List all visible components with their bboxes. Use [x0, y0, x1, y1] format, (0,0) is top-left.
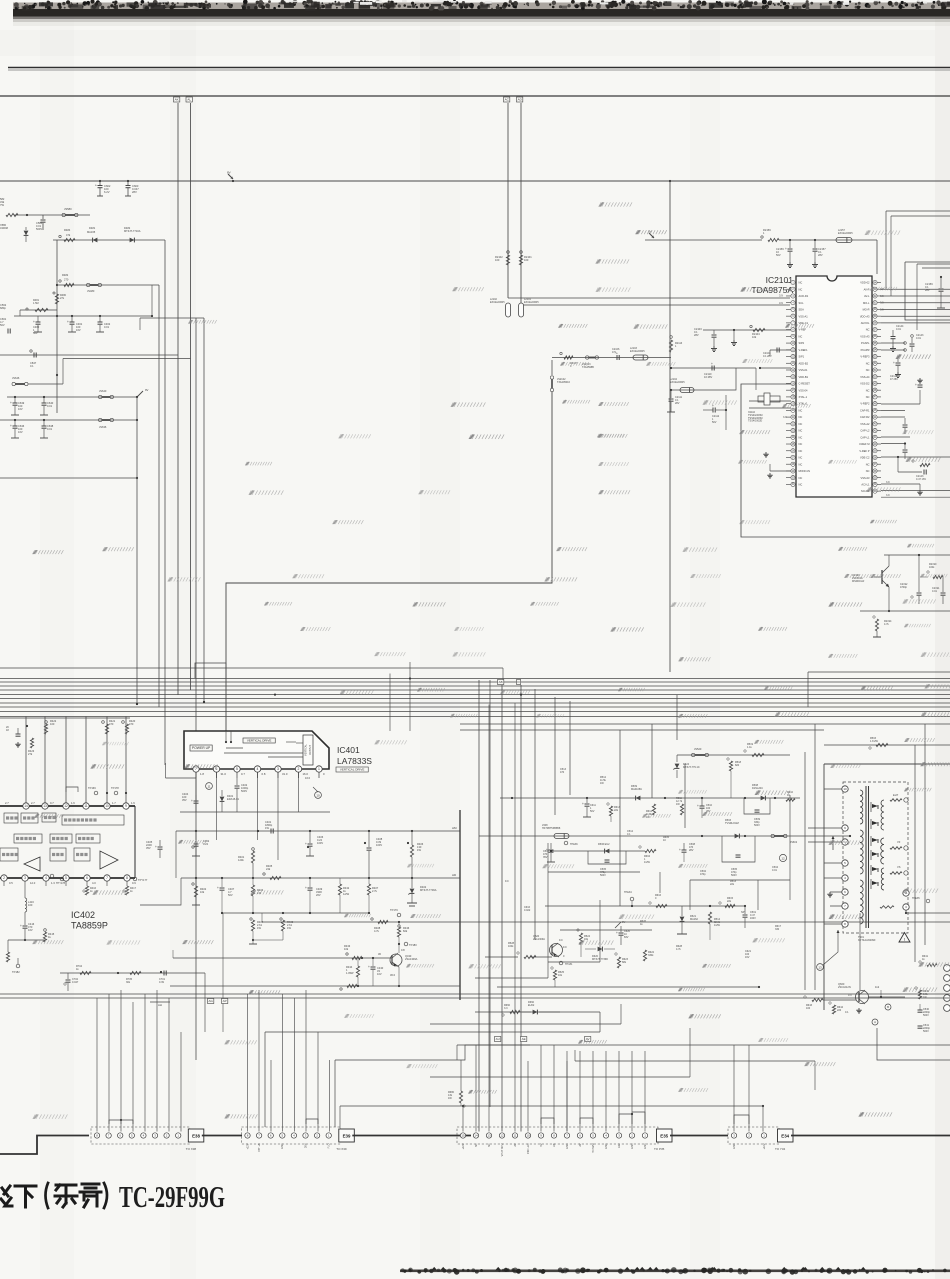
wire V-REF2 right: [881, 403, 920, 405]
resistor R2159: [768, 238, 779, 241]
svg-text:MTZJT-7710A: MTZJT-7710A: [124, 229, 141, 233]
wire row 1061: [575, 1060, 815, 1062]
connector E35 pin 9: [538, 1133, 543, 1138]
wire i2c bracket: [66, 787, 78, 792]
wire: second rail: [0, 95, 950, 97]
wire vertical x152: [151, 285, 153, 316]
svg-text:VSS-01: VSS-01: [799, 368, 808, 372]
wire row 1045: [457, 1044, 950, 1046]
T501 primary winding 3: [860, 880, 863, 924]
svg-text:NC: NC: [866, 462, 870, 466]
connector E35 pin 1: [642, 1133, 647, 1138]
wire thick E38-E39: [202, 1135, 242, 1137]
wire D vertical: [520, 685, 522, 1132]
jumper JS580: [62, 213, 65, 216]
connector E38 label: [188, 1129, 204, 1142]
resistor R2190: [927, 571, 929, 573]
wire right box A: [905, 261, 950, 263]
capacitor C2191: [942, 589, 944, 592]
svg-text:AM: AM: [452, 826, 457, 830]
wire mesh v x925: [924, 724, 926, 945]
wire vertical x137 lower: [136, 478, 138, 704]
diode D509: [636, 796, 641, 801]
svg-text:0.1: 0.1: [845, 1011, 849, 1014]
svg-text:T3A205016: T3A205016: [557, 381, 571, 384]
svg-text:8V: 8V: [227, 171, 231, 175]
wire mesh h 880: [690, 879, 790, 881]
svg-text:4300M: 4300M: [0, 226, 8, 230]
svg-text:31.0: 31.0: [221, 772, 227, 776]
node AD: [517, 97, 523, 102]
wire row 316: [14, 315, 152, 317]
ground T501 pin6: [829, 892, 831, 894]
svg-text:AH: AH: [158, 1003, 162, 1007]
zener D524: [675, 764, 680, 769]
connector E39 pin 3: [303, 1133, 308, 1138]
svg-text:+12V: +12V: [462, 1143, 465, 1149]
svg-text:TP181: TP181: [565, 963, 573, 966]
svg-text:+: +: [616, 931, 618, 935]
svg-text:10 28V: 10 28V: [704, 375, 712, 379]
connector E34 label: [778, 1129, 794, 1142]
wire base row 958: [173, 957, 392, 959]
capacitor C2145: [904, 418, 906, 424]
resistor R2194: [873, 616, 875, 618]
test point TP179: [397, 913, 401, 917]
svg-text:26V: 26V: [304, 1143, 307, 1148]
svg-text:12: 12: [500, 1134, 504, 1138]
wire bus line 4: [0, 689, 950, 691]
resistor R2105: [912, 460, 914, 462]
wire mesh v x548: [547, 843, 549, 978]
svg-text:NC: NC: [799, 449, 803, 453]
svg-text:0.1: 0.1: [627, 833, 631, 836]
svg-text:+: +: [697, 804, 699, 808]
svg-text:7: 7: [195, 767, 197, 771]
resistor R2102: [506, 255, 509, 265]
svg-text:+: +: [305, 842, 307, 846]
svg-text:16.0: 16.0: [303, 772, 309, 776]
capacitor C407: [221, 878, 223, 887]
svg-text:1W: 1W: [417, 848, 421, 852]
svg-text:EXCELDR05: EXCELDR05: [490, 301, 505, 304]
svg-text:11: 11: [513, 1134, 516, 1138]
svg-text:1W: 1W: [600, 782, 604, 785]
svg-text:330k: 330k: [648, 954, 654, 957]
resistor R404: [250, 918, 252, 920]
wire 240 cont: [779, 239, 868, 241]
svg-text:NC: NC: [799, 281, 803, 285]
svg-text:500V: 500V: [36, 227, 42, 231]
inductor L2102: [506, 303, 511, 317]
svg-text:+: +: [711, 362, 713, 366]
resistor R482: [59, 280, 61, 282]
svg-text:INDI LED: INDI LED: [527, 1143, 530, 1154]
svg-text:VSS-A3: VSS-A3: [860, 334, 870, 338]
capacitor C2157: [814, 240, 816, 248]
svg-text:100: 100: [806, 1007, 811, 1010]
capacitor C702: [67, 973, 69, 979]
connector E35 pin 8: [551, 1133, 556, 1138]
wire AC vertical: [507, 103, 509, 298]
test point TPE36: [564, 841, 568, 845]
svg-text:AU: AU: [496, 1037, 500, 1041]
svg-text:50V: 50V: [0, 323, 5, 327]
connector E34 dashed box: [728, 1127, 779, 1144]
svg-text:EXCELDR05: EXCELDR05: [524, 301, 539, 304]
jumper JS646: [12, 382, 15, 385]
svg-text:NC: NC: [799, 334, 803, 338]
svg-text:VDE-C2: VDE-C2: [860, 456, 870, 460]
connector E39 bridge: [306, 1119, 318, 1124]
label VERTICAL DRIVE inside: [243, 738, 275, 743]
svg-text:!: !: [904, 937, 905, 942]
svg-text:28V: 28V: [689, 849, 694, 852]
svg-text:1.1k: 1.1k: [747, 746, 752, 749]
resistor R622: [643, 950, 646, 961]
svg-text:100k: 100k: [508, 945, 514, 948]
svg-text:35V: 35V: [182, 798, 187, 802]
wire mesh v x479: [478, 680, 480, 1132]
ground pin8 branch: [733, 330, 735, 340]
wire V-REF pin8: [703, 329, 791, 331]
svg-text:9.0: 9.0: [563, 946, 567, 949]
svg-text:1: 1: [318, 767, 320, 771]
circled 12: [779, 854, 786, 861]
wire mesh v x815: [814, 724, 816, 990]
wire row 478: [0, 477, 137, 479]
connector E34 pin 2: [746, 1133, 751, 1138]
svg-text:330: 330: [775, 928, 780, 931]
wire C-RESET long: [741, 384, 950, 537]
svg-text:AV: AV: [579, 1143, 582, 1146]
connector E39 pin 1: [326, 1133, 331, 1138]
svg-text:0.47 16V: 0.47 16V: [916, 478, 926, 481]
wire row 357: [552, 357, 671, 359]
svg-text:B: B: [887, 1005, 889, 1009]
svg-text:TPY178: TPY178: [56, 882, 66, 885]
crystal X2110: [749, 400, 791, 402]
svg-text:100: 100: [28, 903, 33, 907]
svg-text:+: +: [95, 184, 97, 188]
wire bottom row 986: [170, 985, 460, 987]
svg-text:JS580: JS580: [64, 207, 72, 211]
resistor R514: [709, 905, 711, 907]
wire Q433 vert: [398, 944, 400, 953]
T501 primary winding 2: [860, 830, 863, 874]
svg-text:TSS4G003D: TSS4G003D: [748, 420, 762, 423]
wire row878 left exit: [140, 878, 181, 905]
wire row 973: [60, 972, 205, 974]
svg-text:3: 3: [24, 876, 26, 880]
wire IC401 pin7 down: [195, 772, 197, 800]
svg-text:82k: 82k: [403, 929, 408, 933]
wire T501 left feeds: [824, 788, 842, 790]
resistor R402: [192, 883, 194, 885]
jumper JS640: [99, 395, 102, 398]
circled 13: [817, 964, 824, 971]
jumper JS480: [87, 283, 90, 286]
capacitor C2159: [789, 240, 791, 248]
svg-text:TP180: TP180: [409, 943, 417, 947]
svg-text:NC: NC: [866, 395, 870, 399]
connector E38 pin 8: [94, 1133, 99, 1138]
svg-text:13: 13: [487, 1134, 491, 1138]
svg-text:0.39: 0.39: [159, 981, 164, 984]
wire bottom rail 990b: [0, 993, 950, 995]
svg-text:GND: GND: [644, 1143, 647, 1149]
svg-text:1/2W: 1/2W: [343, 892, 350, 896]
capacitor C2143: [911, 335, 914, 338]
svg-text:500V: 500V: [754, 824, 760, 827]
svg-text:6: 6: [86, 876, 88, 880]
wire MONO-IN: [770, 470, 791, 472]
wire row 940: [8, 939, 45, 941]
svg-text:GND: GND: [605, 1143, 608, 1149]
wire mesh h 978: [475, 977, 548, 979]
svg-text:VDE-C1: VDE-C1: [799, 321, 809, 325]
wire AB vertical: [501, 685, 503, 1132]
svg-text:AB: AB: [553, 1143, 556, 1147]
wire loop above bus: [195, 663, 226, 678]
IC402 opamp right: [100, 851, 118, 869]
svg-text:100k: 100k: [929, 566, 935, 569]
svg-text:16V: 16V: [28, 928, 33, 932]
diode D503: [735, 834, 740, 839]
connector E39 dashed box: [242, 1127, 341, 1144]
connector E35 dashed box: [457, 1127, 658, 1144]
svg-text:1/2W: 1/2W: [644, 861, 650, 864]
wire bus line 2: [0, 681, 950, 683]
capacitor C602: [98, 185, 103, 187]
svg-text:11: 11: [207, 784, 210, 788]
svg-text:JS640: JS640: [99, 389, 107, 393]
IC2101 right pin stubs: [877, 282, 881, 284]
wire bus line 8: [0, 706, 950, 708]
wire row 1077: [430, 1076, 690, 1078]
svg-text:+: +: [217, 886, 219, 890]
capacitor C2103: [713, 330, 715, 334]
wire bottom rail 998: [0, 997, 950, 999]
diode D660: [533, 1010, 538, 1015]
svg-text:CAP-L1: CAP-L1: [860, 435, 870, 439]
svg-text:3.9: 3.9: [886, 494, 890, 497]
capacitor C416: [24, 912, 26, 925]
svg-text:MSD601-R: MSD601-R: [852, 580, 865, 583]
wire vertical x137: [136, 397, 138, 478]
connector E35 pin 10: [525, 1133, 530, 1138]
svg-text:IC401: IC401: [337, 745, 360, 755]
wire mid vertical x756: [755, 368, 757, 390]
svg-text:TO P35: TO P35: [654, 1147, 665, 1151]
T501 pin 8: [842, 921, 848, 927]
transistor Q620: [550, 944, 563, 957]
svg-text:35V: 35V: [146, 846, 151, 850]
wire mesh v x915: [914, 745, 916, 962]
wire vertical x165b: [165, 763, 167, 778]
resistor R432: [339, 878, 341, 884]
svg-text:AUXOL: AUXOL: [861, 321, 870, 325]
resistor R511: [680, 804, 683, 815]
svg-text:JS646: JS646: [12, 376, 20, 380]
T501 pin 9: [842, 825, 848, 831]
wire: 8V horizontal rail: [0, 180, 950, 182]
T501 VS terminal: [890, 872, 902, 875]
capacitor C409: [309, 878, 311, 887]
svg-text:1.8 2W: 1.8 2W: [870, 740, 879, 743]
svg-text:3.9: 3.9: [779, 301, 783, 305]
wire to IC top: [868, 239, 877, 241]
svg-text:AV: AV: [514, 1143, 517, 1146]
svg-text:VSS-D2: VSS-D2: [860, 382, 870, 386]
svg-text:GND: GND: [281, 1143, 284, 1149]
svg-text:MO-R: MO-R: [863, 308, 870, 312]
test point TP169: [94, 791, 98, 795]
wire bus line 1: [0, 678, 950, 680]
IC402 pin risers: [25, 717, 27, 803]
svg-text:50V: 50V: [228, 893, 233, 897]
svg-text:1.3: 1.3: [51, 881, 55, 885]
resistor R503: [876, 743, 888, 746]
svg-text:500V: 500V: [241, 789, 247, 793]
svg-text:2SC4212N: 2SC4212N: [838, 985, 851, 989]
IC401 pins: [193, 766, 199, 772]
wire mesh h 872: [548, 871, 640, 873]
svg-text:CAP-R1: CAP-R1: [860, 408, 870, 412]
svg-text:AL: AL: [187, 98, 191, 102]
resistor R417: [125, 886, 128, 895]
svg-text:MTZJT-779.1C: MTZJT-779.1C: [683, 766, 700, 769]
connector E38 pin 3: [152, 1133, 157, 1138]
svg-text:+: +: [20, 924, 22, 928]
svg-text:1.8: 1.8: [200, 772, 204, 776]
wire E35 feeds from top: [540, 1045, 542, 1051]
svg-text:VSS-A1: VSS-A1: [799, 314, 809, 318]
connector E38 pin 2: [164, 1133, 169, 1138]
T501 EHT terminal: [890, 799, 902, 802]
svg-text:0.01: 0.01: [47, 404, 53, 408]
svg-text:1.6: 1.6: [71, 801, 75, 805]
resistor R704: [80, 971, 91, 974]
svg-text:680p: 680p: [0, 306, 6, 310]
T501 pin 11: [903, 890, 909, 896]
node AE: [521, 1037, 527, 1042]
svg-text:+: +: [10, 424, 12, 428]
op-amp IC2101 TDA9875A body: [796, 276, 872, 497]
capacitor C510: [700, 805, 705, 807]
wire thick E35-E34: [670, 1135, 728, 1137]
wire TP179 row 922: [262, 921, 950, 923]
node AC: [504, 97, 510, 102]
svg-text:0.3: 0.3: [848, 994, 852, 997]
svg-text:+12V: +12V: [763, 1143, 766, 1149]
capacitor C462: [98, 321, 103, 323]
svg-text:NC: NC: [866, 328, 870, 332]
capacitor C406: [307, 846, 309, 848]
diode D508: [761, 796, 766, 801]
svg-text:JS636: JS636: [99, 425, 107, 429]
svg-text:0.7: 0.7: [50, 801, 54, 805]
capacitor C541: [918, 1025, 923, 1027]
T501 pin 5: [842, 860, 848, 866]
connector E39 label: [339, 1129, 355, 1142]
svg-text:NC: NC: [799, 462, 803, 466]
resistor R406: [411, 831, 413, 845]
svg-text:+: +: [582, 802, 584, 806]
inductor L508: [554, 834, 569, 839]
svg-text:NC: NC: [866, 388, 870, 392]
svg-text:11: 11: [84, 804, 88, 808]
svg-text:NC: NC: [475, 1143, 478, 1147]
wire power row 745: [824, 744, 950, 746]
svg-text:VSS-03: VSS-03: [861, 476, 870, 480]
wire row 310: [20, 309, 57, 311]
svg-text:13: 13: [818, 965, 822, 969]
svg-text:KFT4AAN309F: KFT4AAN309F: [858, 938, 876, 942]
wire vertical x670: [669, 181, 671, 672]
svg-text:NC: NC: [799, 429, 803, 433]
svg-text:12: 12: [64, 804, 68, 808]
connector E38 pin 5: [129, 1133, 134, 1138]
label POWER UP: [190, 745, 212, 751]
svg-text:0.01: 0.01: [896, 328, 901, 331]
connector E39 pin 2: [314, 1133, 319, 1138]
svg-text:10: 10: [526, 1134, 530, 1138]
svg-text:470p: 470p: [700, 873, 706, 876]
wire power border: [824, 763, 950, 765]
svg-text:160V: 160V: [750, 917, 756, 920]
svg-text:D481: D481: [89, 226, 96, 230]
resistor R524: [577, 929, 579, 931]
svg-text:5: 5: [236, 767, 238, 771]
svg-text:VERTICAL DRIVE: VERTICAL DRIVE: [247, 739, 272, 743]
svg-text:VERTICAL: VERTICAL: [305, 744, 308, 756]
capacitor C2112: [712, 408, 714, 413]
resistor R420: [122, 721, 125, 724]
svg-text:TPE36: TPE36: [570, 843, 578, 846]
svg-text:A: A: [874, 1020, 876, 1024]
wire AK vertical: [177, 103, 179, 695]
wire pin13 ADD-B2: [760, 367, 791, 369]
capacitor C2111: [670, 390, 672, 398]
wire mesh v x685: [684, 764, 686, 828]
resistor R623: [615, 953, 617, 955]
svg-text:AB: AB: [499, 680, 503, 684]
svg-text:28V: 28V: [132, 190, 137, 194]
wire row 1106: [340, 1105, 763, 1107]
svg-text:+: +: [155, 845, 157, 849]
wire 1012 row: [475, 1011, 600, 1013]
resistor R604: [639, 846, 641, 848]
wire SCI-R1: [881, 496, 950, 498]
IC402 bottom pins: [1, 875, 7, 881]
wire verticals x159 x165: [158, 285, 160, 707]
resistor R2104: [753, 328, 765, 331]
wire power row 755: [677, 754, 790, 756]
junction dots on bus: [136, 703, 138, 705]
svg-text:ACI-L1: ACI-L1: [861, 483, 870, 487]
svg-text:270: 270: [64, 278, 69, 282]
svg-text:4700p: 4700p: [900, 586, 908, 589]
svg-text:XTAL-0: XTAL-0: [799, 402, 808, 406]
svg-text:1/2W: 1/2W: [714, 924, 720, 927]
connector E34 pin 3: [731, 1133, 736, 1138]
scan artifact: bottom edge band: [400, 1267, 950, 1275]
svg-text:NC: NC: [799, 483, 803, 487]
svg-text:MA162: MA162: [690, 918, 699, 921]
svg-text:V-REF3: V-REF3: [860, 355, 870, 359]
resistor R416: [85, 886, 88, 895]
